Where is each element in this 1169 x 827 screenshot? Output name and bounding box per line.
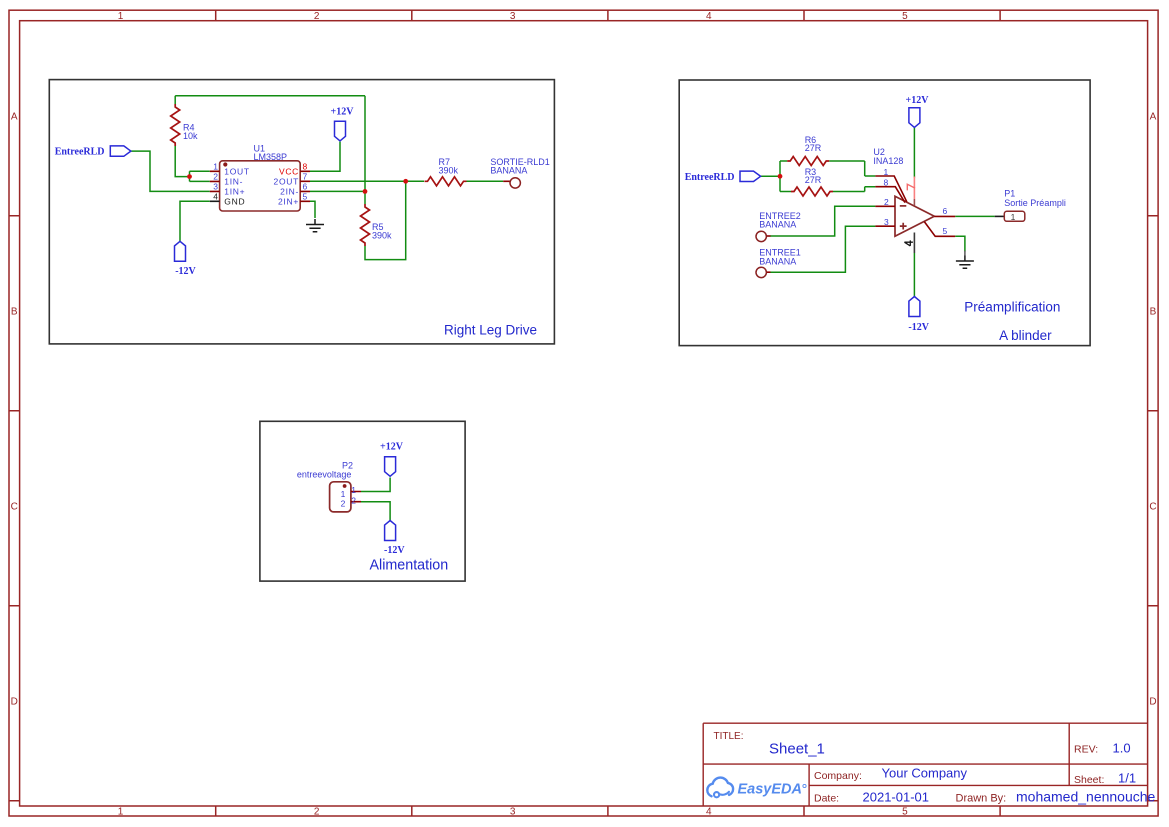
- svg-text:4: 4: [706, 11, 712, 22]
- svg-text:27R: 27R: [805, 143, 822, 153]
- svg-text:4: 4: [213, 191, 218, 201]
- svg-text:REV:: REV:: [1074, 744, 1098, 756]
- svg-text:2: 2: [213, 172, 218, 182]
- svg-text:390k: 390k: [372, 231, 392, 241]
- svg-text:EntreeRLD: EntreeRLD: [685, 172, 735, 183]
- svg-text:Drawn By:: Drawn By:: [956, 793, 1007, 805]
- svg-text:C: C: [1149, 502, 1156, 513]
- svg-text:B: B: [11, 307, 18, 318]
- svg-text:27R: 27R: [805, 175, 822, 185]
- svg-text:5: 5: [943, 226, 948, 236]
- svg-text:C: C: [11, 502, 18, 513]
- svg-text:BANANA: BANANA: [490, 165, 527, 175]
- svg-text:BANANA: BANANA: [759, 220, 796, 230]
- svg-text:Company:: Company:: [814, 770, 862, 782]
- svg-text:7: 7: [303, 171, 308, 181]
- svg-text:Sortie Préampli: Sortie Préampli: [1004, 198, 1066, 208]
- svg-text:A: A: [11, 112, 18, 123]
- svg-text:1/1: 1/1: [1118, 771, 1136, 786]
- svg-text:EasyEDA: EasyEDA: [738, 782, 802, 798]
- svg-text:B: B: [1150, 307, 1157, 318]
- svg-text:Préamplification: Préamplification: [964, 300, 1060, 315]
- svg-text:8: 8: [303, 161, 308, 171]
- svg-text:+12V: +12V: [906, 95, 930, 106]
- svg-text:8: 8: [884, 178, 889, 188]
- svg-text:2IN+: 2IN+: [278, 196, 299, 206]
- svg-text:INA128: INA128: [873, 156, 903, 166]
- svg-text:2IN-: 2IN-: [280, 187, 299, 197]
- svg-text:4: 4: [706, 807, 712, 818]
- svg-text:Sheet_1: Sheet_1: [769, 741, 825, 758]
- svg-text:10k: 10k: [183, 131, 198, 141]
- svg-text:1OUT: 1OUT: [224, 166, 249, 176]
- svg-text:3: 3: [510, 11, 516, 22]
- svg-text:1: 1: [118, 807, 124, 818]
- svg-text:A blinder: A blinder: [999, 328, 1052, 343]
- svg-text:2OUT: 2OUT: [274, 176, 299, 186]
- svg-text:2: 2: [314, 11, 320, 22]
- svg-text:D: D: [1149, 697, 1156, 708]
- svg-text:1: 1: [884, 167, 889, 177]
- svg-text:Alimentation: Alimentation: [370, 558, 449, 574]
- svg-text:1: 1: [351, 485, 356, 495]
- svg-text:-12V: -12V: [175, 266, 196, 277]
- svg-text:3: 3: [213, 182, 218, 192]
- svg-text:1.0: 1.0: [1113, 741, 1131, 756]
- svg-text:Your Company: Your Company: [882, 766, 968, 781]
- svg-text:1: 1: [341, 489, 346, 499]
- svg-text:TITLE:: TITLE:: [714, 731, 744, 742]
- svg-text:P1: P1: [1004, 189, 1015, 199]
- svg-text:EntreeRLD: EntreeRLD: [55, 147, 105, 158]
- svg-text:1IN-: 1IN-: [224, 177, 243, 187]
- svg-text:2: 2: [884, 197, 889, 207]
- svg-text:entreevoltage: entreevoltage: [297, 470, 352, 480]
- svg-text:2: 2: [351, 495, 356, 505]
- svg-text:A: A: [1150, 112, 1157, 123]
- svg-text:2: 2: [314, 807, 320, 818]
- svg-text:Right Leg Drive: Right Leg Drive: [444, 323, 537, 338]
- svg-text:1IN+: 1IN+: [224, 187, 245, 197]
- svg-text:3: 3: [510, 807, 516, 818]
- svg-text:LM358P: LM358P: [254, 152, 288, 162]
- svg-text:D: D: [11, 697, 18, 708]
- svg-text:6: 6: [303, 182, 308, 192]
- svg-text:2: 2: [341, 499, 346, 509]
- svg-text:390k: 390k: [439, 166, 459, 176]
- svg-text:-12V: -12V: [384, 545, 405, 556]
- svg-text:mohamed_nennouche: mohamed_nennouche: [1016, 789, 1156, 805]
- svg-text:VCC: VCC: [279, 166, 299, 176]
- svg-text:+12V: +12V: [331, 106, 355, 117]
- svg-text:5: 5: [303, 191, 308, 201]
- svg-text:1: 1: [1011, 212, 1016, 222]
- svg-text:GND: GND: [224, 196, 245, 206]
- svg-text:-12V: -12V: [908, 322, 929, 333]
- svg-text:1: 1: [213, 161, 218, 171]
- svg-text:6: 6: [943, 206, 948, 216]
- svg-text:BANANA: BANANA: [759, 256, 796, 266]
- svg-text:Date:: Date:: [814, 793, 839, 805]
- svg-text:1: 1: [118, 11, 124, 22]
- svg-text:+12V: +12V: [380, 442, 404, 453]
- svg-text:Sheet:: Sheet:: [1074, 774, 1104, 786]
- svg-text:3: 3: [884, 217, 889, 227]
- svg-text:5: 5: [902, 807, 908, 818]
- svg-text:5: 5: [902, 11, 908, 22]
- svg-text:2021-01-01: 2021-01-01: [863, 790, 930, 805]
